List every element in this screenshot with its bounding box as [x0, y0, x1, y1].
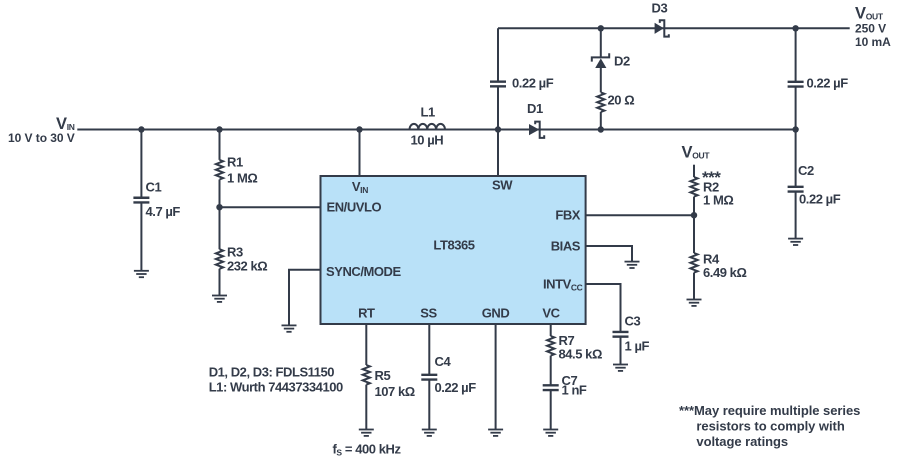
node D2 bottom: [598, 126, 604, 132]
ground (C3): [613, 365, 628, 371]
node VOUT above R2: [682, 144, 711, 178]
svg-text:resistors to comply with: resistors to comply with: [696, 419, 844, 434]
wire GND pin: [495, 324, 497, 430]
inductor L1: [410, 105, 446, 148]
wire SW branch vertical: [497, 28, 499, 176]
svg-text:107 kΩ: 107 kΩ: [375, 384, 415, 399]
svg-text:D1: D1: [527, 101, 543, 116]
svg-text:6.49 kΩ: 6.49 kΩ: [703, 265, 746, 280]
resistor R3: [216, 207, 267, 295]
svg-text:4.7 µF: 4.7 µF: [146, 204, 181, 219]
wire VIN pin: [359, 130, 361, 177]
svg-text:232 kΩ: 232 kΩ: [227, 259, 267, 274]
svg-text:fS = 400 kHz: fS = 400 kHz: [333, 442, 402, 458]
wire FBX: [586, 214, 694, 216]
BOM note D1 D2 D3: [209, 365, 343, 395]
svg-text:10 V to 30 V: 10 V to 30 V: [8, 131, 75, 145]
resistor R1: [216, 130, 257, 208]
svg-text:***May require multiple series: ***May require multiple series: [679, 403, 860, 418]
node EN/UVLO divider: [216, 204, 222, 210]
svg-text:GND: GND: [482, 306, 510, 321]
svg-text:VC: VC: [542, 306, 560, 321]
svg-text:SYNC/MODE: SYNC/MODE: [326, 264, 401, 279]
ground (R5): [359, 430, 374, 436]
svg-text:0.22 µF: 0.22 µF: [799, 192, 841, 207]
capacitor C4 (SS pin): [421, 324, 476, 430]
svg-text:LT8365: LT8365: [433, 237, 474, 252]
svg-text:0.22 µF: 0.22 µF: [512, 76, 554, 91]
ground (C4): [422, 430, 437, 436]
ground (BIAS): [625, 262, 640, 268]
capacitor C7: [543, 373, 587, 430]
svg-text:BIAS: BIAS: [551, 239, 581, 254]
svg-text:C4: C4: [435, 354, 452, 369]
svg-text:250 V: 250 V: [855, 21, 886, 35]
capacitor 0.22uF (SW snubber): [490, 76, 554, 91]
svg-text:EN/UVLO: EN/UVLO: [327, 200, 382, 215]
ground (C7): [543, 430, 558, 436]
wire EN/UVLO: [220, 206, 321, 208]
resistor 20ohm: [597, 92, 634, 112]
svg-text:1 µF: 1 µF: [625, 339, 650, 354]
wire top rail: [498, 27, 850, 29]
svg-text:L1: Wurth 74437334100: L1: Wurth 74437334100: [209, 380, 343, 395]
node VOUT top right label: [855, 5, 891, 49]
node C1 tap: [138, 126, 144, 132]
diode D1: [527, 101, 544, 138]
wire SYNC/MODE to ground: [289, 270, 321, 326]
node VOUT rail: [792, 25, 798, 31]
svg-text:SS: SS: [420, 306, 437, 321]
svg-text:R3: R3: [227, 245, 243, 260]
ground (R3): [212, 296, 227, 302]
svg-text:84.5 kΩ: 84.5 kΩ: [559, 347, 602, 362]
capacitor 0.22uF (top right): [788, 76, 849, 91]
svg-text:0.22 µF: 0.22 µF: [807, 76, 849, 91]
resistor R7 (VC pin): [547, 324, 602, 385]
node output cap mid: [792, 126, 798, 132]
node SW tap: [495, 126, 501, 132]
svg-text:1 MΩ: 1 MΩ: [703, 193, 733, 208]
resistor R5 (RT pin): [363, 324, 415, 430]
svg-text:voltage ratings: voltage ratings: [696, 434, 788, 449]
capacitor C3: [613, 314, 650, 354]
svg-text:C1: C1: [146, 180, 162, 195]
op-amp/IC U1 LT8365 box: [321, 176, 586, 324]
capacitor C1: [133, 130, 180, 271]
svg-text:10 mA: 10 mA: [855, 35, 891, 49]
wire main input rail: [77, 129, 795, 131]
node R1 tap: [216, 126, 222, 132]
ground (SYNC/MODE): [282, 325, 297, 331]
svg-text:C3: C3: [625, 314, 641, 329]
diode D3: [652, 1, 669, 37]
svg-text:1 nF: 1 nF: [562, 383, 587, 398]
svg-text:R1: R1: [227, 155, 243, 170]
svg-text:SW: SW: [492, 178, 513, 193]
svg-text:20 Ω: 20 Ω: [608, 92, 635, 107]
svg-text:RT: RT: [358, 306, 375, 321]
wire BIAS to ground: [586, 246, 632, 262]
svg-text:L1: L1: [421, 105, 435, 120]
footnote: [679, 403, 860, 449]
svg-text:C2: C2: [798, 163, 814, 178]
wire output rail right vertical: [795, 28, 797, 238]
ground (C1): [134, 271, 149, 277]
wire D2/20ohm branch: [600, 28, 602, 129]
svg-text:FBX: FBX: [555, 208, 580, 223]
svg-text:D3: D3: [652, 1, 668, 16]
node FBX divider: [691, 212, 697, 218]
svg-text:1 MΩ: 1 MΩ: [227, 171, 257, 186]
capacitor C2: [788, 163, 841, 207]
svg-text:10 µH: 10 µH: [411, 133, 444, 148]
svg-text:0.22 µF: 0.22 µF: [435, 380, 477, 395]
wire INTVCC to C3: [586, 284, 621, 365]
resistor R4: [690, 252, 746, 300]
ground (C2): [788, 239, 803, 245]
ground (GND pin): [488, 430, 503, 436]
node D2 top: [598, 25, 604, 31]
node VIN pin tap: [356, 126, 362, 132]
svg-text:D1, D2, D3: FDLS1150: D1, D2, D3: FDLS1150: [209, 365, 335, 380]
node VIN label: [8, 115, 75, 145]
diode D2: [592, 53, 630, 68]
svg-text:R5: R5: [375, 368, 391, 383]
svg-text:D2: D2: [614, 54, 630, 69]
resistor R2: [690, 168, 733, 253]
ground (R4): [687, 300, 702, 306]
